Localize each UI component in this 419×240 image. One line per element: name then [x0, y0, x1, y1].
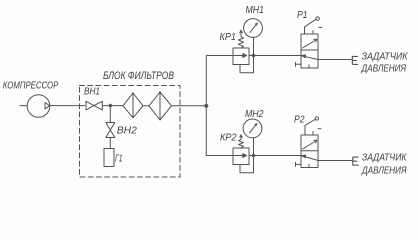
svg-text:КР2: КР2 — [220, 132, 237, 143]
svg-text:КР1: КР1 — [220, 32, 237, 43]
svg-text:ДАВЛЕНИЯ: ДАВЛЕНИЯ — [361, 64, 407, 75]
svg-text:ДАВЛЕНИЯ: ДАВЛЕНИЯ — [361, 166, 407, 177]
svg-text:Р2: Р2 — [294, 114, 305, 125]
svg-text:ЗАДАТЧИК: ЗАДАТЧИК — [362, 152, 407, 163]
svg-text:МН1: МН1 — [246, 5, 265, 16]
svg-text:ЗАДАТЧИК: ЗАДАТЧИК — [362, 51, 409, 62]
svg-text:КОМПРЕССОР: КОМПРЕССОР — [3, 80, 59, 91]
svg-text:БЛОК ФИЛЬТРОВ: БЛОК ФИЛЬТРОВ — [103, 70, 174, 82]
svg-text:МН2: МН2 — [245, 109, 264, 120]
svg-text:ВН1: ВН1 — [84, 86, 100, 97]
svg-text:Г1: Г1 — [115, 153, 123, 164]
svg-text:Р1: Р1 — [297, 10, 308, 21]
svg-text:ВН2: ВН2 — [117, 126, 138, 137]
